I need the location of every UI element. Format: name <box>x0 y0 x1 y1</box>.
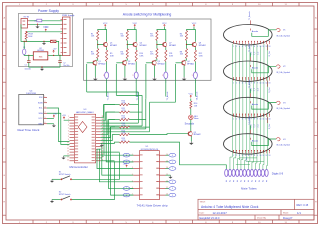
wire SET <box>101 151 120 153</box>
net flag 4 <box>166 187 169 189</box>
wire <box>25 39 27 41</box>
svg-text:7805: 7805 <box>39 56 43 58</box>
svg-text:12: 12 <box>265 82 267 84</box>
svg-text:10: 10 <box>259 82 261 84</box>
svg-text:Microcontroller: Microcontroller <box>70 165 88 169</box>
fuse F1 <box>37 19 42 22</box>
resistor R2 15K <box>126 31 128 41</box>
svg-text:10u/16v: 10u/16v <box>25 68 31 70</box>
wire <box>52 199 61 201</box>
svg-text:4: 4 <box>242 46 243 48</box>
connector pin digit 11 <box>265 169 268 176</box>
wire <box>186 45 188 49</box>
svg-text:T2_Anode: T2_Anode <box>136 92 139 101</box>
wire <box>101 127 115 138</box>
nixie tube V3 IN_14b <box>224 97 273 117</box>
svg-text:1: 1 <box>233 155 234 157</box>
wire <box>190 109 192 116</box>
net flag A <box>130 154 133 156</box>
svg-text:28: 28 <box>102 128 104 130</box>
svg-text:15: 15 <box>67 157 69 159</box>
ground <box>190 137 192 142</box>
svg-text:4: 4 <box>172 188 173 190</box>
svg-text:13: 13 <box>268 119 270 121</box>
wire BCD line <box>111 126 115 128</box>
resistor R10 4.7K <box>120 104 130 106</box>
wire <box>98 27 106 31</box>
svg-text:1: 1 <box>192 75 193 77</box>
wire <box>165 47 167 50</box>
resistor R14 4.7K <box>120 134 130 136</box>
wire <box>96 59 98 61</box>
transistor Q4 MPSA42 <box>181 61 185 65</box>
microcontroller pin numbers <box>67 116 103 161</box>
resistor R6 15K <box>126 49 128 59</box>
wire <box>101 120 115 135</box>
svg-text:2_2: 2_2 <box>254 52 256 55</box>
svg-text:1: 1 <box>233 119 234 121</box>
connector pin P2 anode out <box>134 72 138 79</box>
svg-text:12-13-2017: 12-13-2017 <box>213 211 228 215</box>
wire <box>115 134 120 136</box>
transistor Q2 MPSA42 <box>122 61 126 65</box>
svg-text:25: 25 <box>102 136 104 138</box>
wire <box>98 41 105 45</box>
ground <box>94 65 96 77</box>
wire <box>126 59 128 61</box>
wire <box>24 54 33 57</box>
resistor R15 4.7K <box>120 141 130 143</box>
svg-text:8: 8 <box>254 155 255 157</box>
aux electrode curl V1 <box>276 28 280 31</box>
svg-text:13: 13 <box>268 155 270 157</box>
svg-text:9V IN: 9V IN <box>24 17 30 19</box>
transistor Q1 MPSA42 <box>93 61 97 65</box>
diode D1 <box>51 40 57 42</box>
svg-text:21: 21 <box>102 148 104 150</box>
wire <box>115 104 120 106</box>
transistor Q8 MPSA92 <box>192 42 196 46</box>
wire <box>26 31 62 33</box>
wire <box>101 112 115 120</box>
svg-text:10: 10 <box>67 142 69 144</box>
svg-text:TITLE:: TITLE: <box>200 202 206 204</box>
svg-text:Anode: Anode <box>252 30 259 33</box>
svg-text:Digits 0-9: Digits 0-9 <box>272 171 284 175</box>
resistor R1 180K <box>25 32 27 39</box>
svg-text:26: 26 <box>102 133 104 135</box>
wire <box>105 30 106 42</box>
svg-text:Seconds: Seconds <box>185 123 195 126</box>
svg-text:14: 14 <box>67 154 69 156</box>
connector pin digit 5 <box>243 169 246 176</box>
svg-text:1/1: 1/1 <box>297 211 301 215</box>
wire <box>135 62 137 73</box>
wire <box>130 104 139 106</box>
tube pin numbers <box>233 155 270 157</box>
wire <box>106 47 108 50</box>
svg-text:9: 9 <box>257 119 258 121</box>
wire <box>64 119 70 121</box>
net flag 3 <box>166 181 169 183</box>
connector pin digit 1 <box>228 169 231 176</box>
ground <box>37 25 39 27</box>
transistor Q5 MPSA92 <box>103 42 107 46</box>
svg-text:16: 16 <box>67 159 69 161</box>
svg-text:8: 8 <box>254 119 255 121</box>
ground <box>183 65 185 77</box>
wire anode base net <box>175 64 177 102</box>
resistor R9 6.8K <box>106 50 108 62</box>
ground <box>41 67 42 68</box>
net flag 2 <box>166 168 169 170</box>
svg-text:GND: GND <box>38 123 43 125</box>
svg-text:SPST Switch: SPST Switch <box>59 173 71 176</box>
svg-text:T1_Anode: T1_Anode <box>107 92 110 101</box>
wire <box>30 20 37 22</box>
svg-text:7: 7 <box>251 82 252 84</box>
svg-text:Date:: Date: <box>200 212 205 215</box>
svg-text:11: 11 <box>263 46 265 48</box>
wire base feed <box>87 62 94 64</box>
svg-text:2_3: 2_3 <box>258 88 260 91</box>
svg-text:24: 24 <box>102 139 104 141</box>
svg-text:MPSA42: MPSA42 <box>194 133 201 136</box>
power flag +5V rtc <box>47 118 54 120</box>
net flag D <box>130 194 133 196</box>
nixie tube V2 IN_14b <box>224 61 273 81</box>
power flag VCC anode cell 1 <box>104 25 106 27</box>
svg-text:VCC: VCC <box>192 23 197 25</box>
svg-text:SDA: SDA <box>38 112 43 115</box>
svg-text:27: 27 <box>102 130 104 132</box>
svg-text:11: 11 <box>263 82 265 84</box>
wire <box>156 45 158 49</box>
net flag B <box>130 161 133 163</box>
wire <box>72 153 120 180</box>
wire <box>101 146 134 175</box>
svg-text:Real Time Clock: Real Time Clock <box>18 128 40 132</box>
wire <box>194 30 195 42</box>
svg-text:L1: L1 <box>34 20 36 22</box>
svg-text:1: 1 <box>233 46 234 48</box>
tube cathode pins <box>233 114 269 117</box>
wire <box>157 41 164 45</box>
wire <box>164 30 165 42</box>
resistor R7 15K <box>156 49 158 59</box>
connector pin digit 2 <box>232 169 235 176</box>
svg-text:1: 1 <box>132 75 133 77</box>
capacitor C1 10u/16v <box>28 55 29 56</box>
wire <box>115 111 120 113</box>
svg-text:2_2: 2_2 <box>258 52 260 55</box>
resistor R13 4.7K <box>120 126 130 128</box>
resistor R16 15K <box>190 101 192 109</box>
net flag C <box>130 187 133 189</box>
svg-text:1: 1 <box>233 82 234 84</box>
svg-text:MPSA92: MPSA92 <box>110 44 117 47</box>
svg-text:10: 10 <box>259 46 261 48</box>
tube cathode pins <box>233 77 269 80</box>
anode pin <box>250 20 252 24</box>
svg-text:9: 9 <box>257 155 258 157</box>
wire <box>130 119 146 121</box>
svg-text:G: G <box>3 175 5 177</box>
connector pin digit 6 <box>247 169 250 176</box>
wire base feed <box>176 62 183 64</box>
svg-text:5: 5 <box>245 46 246 48</box>
wire <box>29 66 60 68</box>
wire <box>190 120 192 132</box>
svg-text:VCC: VCC <box>103 23 108 25</box>
wire <box>127 41 134 45</box>
wire <box>48 54 63 56</box>
wire <box>99 149 133 182</box>
connector pin digit 4 <box>239 169 242 176</box>
wire grid <box>252 66 276 73</box>
svg-text:Nixie Tubes: Nixie Tubes <box>241 187 257 191</box>
svg-text:IN_14b_Symbol: IN_14b_Symbol <box>276 35 290 37</box>
svg-text:5: 5 <box>245 155 246 157</box>
svg-text:74141 Nixie Driver chip: 74141 Nixie Driver chip <box>136 203 167 207</box>
svg-text:SPST Switch: SPST Switch <box>59 193 71 196</box>
svg-text:3: 3 <box>239 82 240 84</box>
ground <box>51 179 53 181</box>
svg-text:R_Dot: R_Dot <box>268 123 271 129</box>
wire anode output <box>194 79 196 97</box>
svg-text:2: 2 <box>236 155 237 157</box>
wire SCL <box>47 108 70 142</box>
resistor R10 6.8K <box>135 50 137 62</box>
title block frame <box>198 199 314 220</box>
wire <box>23 41 25 49</box>
svg-text:Doug P: Doug P <box>283 216 292 220</box>
svg-text:MPSA92: MPSA92 <box>199 44 206 47</box>
svg-text:REV: 3.15: REV: 3.15 <box>297 203 309 207</box>
aux electrode curl V2 <box>276 65 280 68</box>
svg-text:Anode: Anode <box>252 139 259 142</box>
resistor R5 15K <box>97 49 99 59</box>
svg-text:12: 12 <box>265 46 267 48</box>
svg-text:MPSA42: MPSA42 <box>158 62 165 65</box>
tube cathode pins <box>233 150 269 153</box>
net flag 0 <box>166 154 169 156</box>
wire <box>130 111 143 113</box>
connector pin P1 anode out <box>105 72 109 79</box>
wire <box>101 155 103 157</box>
aux electrode curl V4 <box>276 138 280 141</box>
svg-text:MPSA92: MPSA92 <box>140 44 147 47</box>
wire anode base net <box>145 64 147 99</box>
wire anode <box>250 89 252 93</box>
svg-text:31: 31 <box>102 119 104 121</box>
anode switching section box <box>84 19 212 80</box>
svg-text:T1_Anode: T1_Anode <box>248 11 251 20</box>
svg-text:VCC: VCC <box>132 23 137 25</box>
ground <box>124 65 126 77</box>
svg-text:13: 13 <box>268 82 270 84</box>
wire <box>187 41 194 45</box>
wire <box>127 27 135 31</box>
tube pin numbers <box>233 46 270 48</box>
transistor Q9 MPSA42 <box>188 132 192 136</box>
svg-text:10: 10 <box>259 119 261 121</box>
wire <box>194 47 196 50</box>
wire <box>101 135 115 141</box>
nixie tube V1 IN_14b <box>224 25 273 45</box>
wire <box>42 20 63 22</box>
svg-text:MPSA42: MPSA42 <box>128 62 135 65</box>
svg-text:Anode: Anode <box>252 67 259 70</box>
svg-text:2: 2 <box>236 119 237 121</box>
wire <box>30 23 63 25</box>
svg-text:Neon: Neon <box>194 118 199 120</box>
wire base feed <box>146 62 153 64</box>
svg-text:G: G <box>315 175 317 177</box>
svg-text:R_Dot: R_Dot <box>268 87 271 93</box>
wire <box>101 105 115 118</box>
svg-text:4: 4 <box>242 82 243 84</box>
capacitor C2 10u/16v <box>59 55 60 56</box>
wire grid <box>252 103 276 110</box>
svg-text:Anode switching for Multiplexi: Anode switching for Multiplexing <box>123 13 172 17</box>
svg-text:32: 32 <box>102 116 104 118</box>
svg-text:IN_14b_Symbol: IN_14b_Symbol <box>276 145 290 147</box>
ground <box>43 41 44 42</box>
tube pin numbers <box>233 119 270 121</box>
resistor R1 15K <box>97 31 99 41</box>
wire grid <box>252 30 276 37</box>
svg-text:7: 7 <box>251 119 252 121</box>
wire <box>97 45 99 49</box>
svg-text:L_Dot: L_Dot <box>245 157 248 162</box>
svg-text:VCC: VCC <box>162 23 167 25</box>
wire anode base net <box>115 64 117 95</box>
svg-text:5: 5 <box>245 119 246 121</box>
ground rtc <box>47 123 54 125</box>
digit loop wires <box>230 154 268 169</box>
ground 74141 <box>166 174 171 176</box>
svg-text:11: 11 <box>67 145 69 147</box>
wire <box>101 142 115 143</box>
tube pin numbers <box>233 82 270 84</box>
wire <box>194 62 196 73</box>
power flag VCC anode cell 4 <box>193 25 195 27</box>
connector pin digit 9 <box>258 169 261 176</box>
svg-text:7: 7 <box>251 155 252 157</box>
svg-text:IN_14b_Symbol: IN_14b_Symbol <box>276 108 290 110</box>
net flag 5 <box>166 194 169 196</box>
transistor Q3 MPSA42 <box>152 61 156 65</box>
resistor R12 6.8K <box>194 50 196 62</box>
svg-text:C1: C1 <box>25 64 27 66</box>
wire <box>106 62 108 73</box>
resistor R11 6.8K <box>165 50 167 62</box>
svg-text:11: 11 <box>263 119 265 121</box>
svg-text:T3_Anode: T3_Anode <box>166 92 169 101</box>
ground <box>51 200 53 202</box>
aux electrode curl V3 <box>276 101 280 104</box>
svg-text:6: 6 <box>248 155 249 157</box>
power supply section box <box>18 14 72 67</box>
svg-text:MPSA42: MPSA42 <box>98 62 105 65</box>
svg-text:VCC: VCC <box>38 118 43 120</box>
wire <box>56 41 59 55</box>
wire <box>187 27 195 31</box>
transistor Q6 MPSA92 <box>133 42 137 46</box>
svg-text:2_4: 2_4 <box>254 125 256 128</box>
resistor R11 4.7K <box>120 111 130 113</box>
svg-text:2_3: 2_3 <box>254 88 256 91</box>
wire anode output <box>165 79 167 97</box>
svg-text:3: 3 <box>239 119 240 121</box>
nixie tube V4 IN_14b <box>224 134 273 154</box>
ground micro right <box>101 142 102 144</box>
svg-text:PWR Supply: PWR Supply <box>62 15 75 17</box>
wire <box>52 178 61 180</box>
wire <box>135 30 136 42</box>
wire <box>115 141 120 143</box>
svg-text:Anode: Anode <box>252 103 259 106</box>
anode pin <box>250 93 252 97</box>
svg-text:T4_Anode: T4_Anode <box>195 92 198 101</box>
wire anode output <box>106 79 108 97</box>
wire <box>126 45 128 49</box>
anode pin <box>250 57 252 61</box>
svg-text:T3_Anode: T3_Anode <box>248 80 251 89</box>
svg-text:10u/16v: 10u/16v <box>63 65 69 67</box>
wire anode <box>250 53 252 57</box>
wire <box>130 126 150 128</box>
ground <box>154 65 156 77</box>
svg-text:T2_Anode: T2_Anode <box>248 43 251 52</box>
svg-text:SQW: SQW <box>38 102 43 104</box>
wire BCD line <box>104 104 115 106</box>
wire <box>165 62 167 73</box>
neon lamp NE1 <box>189 115 194 120</box>
svg-text:3: 3 <box>239 155 240 157</box>
74141 pin numbers <box>132 154 168 196</box>
wire <box>72 161 115 199</box>
wire grid <box>252 139 276 146</box>
wire anode base net <box>86 64 88 92</box>
wire <box>155 59 157 61</box>
svg-text:1: 1 <box>172 162 173 164</box>
svg-text:IN_14b_Symbol: IN_14b_Symbol <box>276 72 290 74</box>
svg-text:4: 4 <box>242 119 243 121</box>
connector pin digit 7 <box>250 169 253 176</box>
wire BCD line <box>108 119 115 121</box>
svg-text:2: 2 <box>236 46 237 48</box>
svg-text:3: 3 <box>239 46 240 48</box>
svg-text:R_Dot: R_Dot <box>268 51 271 57</box>
svg-text:12: 12 <box>265 155 267 157</box>
svg-text:1: 1 <box>162 75 163 77</box>
connector pin P3 anode out <box>164 72 168 79</box>
svg-text:VCC: VCC <box>188 94 193 96</box>
resistor R4 15K <box>185 31 187 41</box>
svg-text:30: 30 <box>102 122 104 124</box>
power flag VCC anode cell 2 <box>134 25 136 27</box>
wire anode output <box>135 79 137 97</box>
wire base feed <box>116 62 123 64</box>
svg-text:Arduino 4 Tube Multiplexed Nix: Arduino 4 Tube Multiplexed Nixie Clock <box>201 205 259 209</box>
svg-text:10: 10 <box>259 155 261 157</box>
wire SDA <box>47 113 70 144</box>
svg-text:+5V: +5V <box>53 113 57 115</box>
svg-text:+5V: +5V <box>53 49 57 51</box>
svg-text:ARDUINO_NANO: ARDUINO_NANO <box>76 111 94 114</box>
